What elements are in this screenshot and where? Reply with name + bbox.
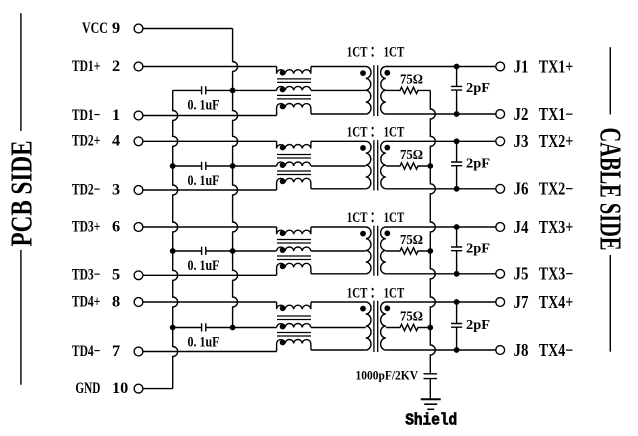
wire secondary top to J pin ch1 — [386, 66, 496, 68]
wire TD3- to common-mode choke — [143, 274, 277, 276]
CABLE SIDE divider line lower — [609, 255, 611, 352]
wire TD2- to common-mode choke — [143, 189, 277, 191]
wire center-tap net ch1 — [233, 89, 277, 91]
PCB SIDE divider line lower — [20, 250, 22, 385]
svg-text:TX3+: TX3+ — [539, 217, 574, 237]
svg-text:2pF: 2pF — [466, 241, 490, 256]
svg-text:PCB SIDE: PCB SIDE — [4, 141, 38, 247]
wire choke to transformer CT ch2 — [311, 165, 366, 167]
pin J7 terminal — [496, 298, 505, 307]
pin 8 terminal — [134, 298, 143, 307]
capacitor 2pF ch2 with junction dots — [456, 141, 458, 189]
svg-text:TD4+: TD4+ — [72, 291, 100, 310]
svg-text:6: 6 — [112, 216, 120, 235]
wire secondary top to J pin ch2 — [386, 140, 496, 142]
choke CM4 polarity dots — [280, 305, 286, 311]
VCC rail (center-tap supply bus) with crossover hops — [233, 29, 238, 328]
transformer T3 primary winding — [366, 227, 371, 274]
transformer T4 core — [374, 301, 378, 352]
svg-text:5: 5 — [112, 265, 120, 284]
transformer T3 secondary winding — [381, 227, 386, 274]
transformer T4 primary winding — [366, 302, 371, 350]
resistor R1 75 ohm — [386, 87, 431, 93]
common-mode choke CM2 windings — [277, 141, 311, 148]
svg-text:2pF: 2pF — [466, 80, 490, 95]
svg-text:1CT ： 1CT: 1CT ： 1CT — [347, 45, 405, 61]
capacitor 2pF ch4 with junction dots — [456, 302, 458, 350]
common-mode choke CM1 windings — [277, 67, 311, 74]
wire choke to transformer bottom ch4 — [311, 349, 366, 351]
svg-text:75Ω: 75Ω — [400, 232, 423, 247]
wire center-tap net ch3 — [233, 250, 277, 252]
choke CM2 polarity dots — [280, 145, 286, 151]
svg-text:0. 1uF: 0. 1uF — [188, 98, 220, 114]
transformer T1 core — [374, 65, 378, 116]
wire choke to transformer top ch4 — [311, 301, 366, 303]
choke CM3 polarity dots — [280, 230, 286, 236]
pin J5 terminal — [496, 269, 505, 278]
wire choke to transformer top ch2 — [311, 140, 366, 142]
capacitor 2pF ch3 with junction dots — [456, 227, 458, 274]
transformer T2 core — [374, 140, 378, 190]
transformer T1 secondary winding — [381, 67, 386, 115]
capacitor 2pF ch1 with junction dots — [456, 67, 458, 115]
svg-text:J8: J8 — [514, 340, 529, 360]
wire TD1+ to common-mode choke — [143, 66, 277, 68]
svg-text:0. 1uF: 0. 1uF — [188, 335, 220, 351]
svg-text:TD3−: TD3− — [72, 265, 100, 284]
capacitor C2 0.1uF (center-tap bypass) — [173, 165, 233, 167]
resistor R2 75 ohm — [386, 163, 431, 169]
svg-text:10: 10 — [112, 378, 128, 397]
transformer T2 polarity dots — [360, 145, 366, 151]
wire choke to transformer bottom ch2 — [311, 188, 366, 190]
svg-text:9: 9 — [112, 18, 120, 37]
svg-text:TD4−: TD4− — [72, 341, 100, 360]
wire VCC pin9 to VCC rail — [143, 28, 233, 30]
svg-text:TD1−: TD1− — [72, 105, 100, 124]
wire secondary bottom to J pin ch1 — [386, 113, 496, 115]
wire secondary bottom to J pin ch4 — [386, 349, 496, 351]
resistor R3 75 ohm — [386, 248, 431, 254]
wire TD4- to common-mode choke — [143, 351, 277, 353]
transformer T3 core — [374, 226, 378, 276]
svg-text:TX1+: TX1+ — [539, 56, 574, 76]
pin 10 terminal — [134, 384, 143, 393]
svg-text:J1: J1 — [514, 56, 529, 76]
capacitor C4 0.1uF (center-tap bypass) — [173, 327, 233, 329]
svg-text:8: 8 — [112, 291, 120, 310]
transformer T2 secondary winding — [381, 141, 386, 189]
svg-text:TX2+: TX2+ — [539, 131, 574, 151]
capacitor 1000pF/2KV — [424, 374, 438, 379]
svg-text:TX2−: TX2− — [539, 179, 574, 199]
CABLE SIDE divider line upper — [609, 47, 611, 114]
wire choke to transformer CT ch1 — [311, 89, 366, 91]
svg-text:J7: J7 — [514, 292, 529, 312]
svg-text:0. 1uF: 0. 1uF — [188, 173, 220, 189]
svg-text:75Ω: 75Ω — [400, 71, 423, 86]
common-mode choke CM3 windings — [277, 227, 311, 234]
resistor R4 75 ohm — [386, 324, 431, 330]
pin 1 terminal — [134, 111, 143, 120]
wire secondary bottom to J pin ch3 — [386, 273, 496, 275]
svg-text:1: 1 — [112, 105, 120, 124]
termination rail to shield capacitor — [430, 90, 435, 373]
wire secondary top to J pin ch3 — [386, 226, 496, 228]
wire TD2+ to common-mode choke — [143, 140, 277, 142]
svg-text:1CT ： 1CT: 1CT ： 1CT — [347, 210, 405, 226]
pin 3 terminal — [134, 186, 143, 195]
svg-text:TD2−: TD2− — [72, 179, 100, 198]
svg-text:J6: J6 — [514, 179, 529, 199]
svg-text:2pF: 2pF — [466, 317, 490, 332]
wire choke to transformer top ch3 — [311, 226, 366, 228]
svg-text:2pF: 2pF — [466, 156, 490, 171]
pin J3 terminal — [496, 137, 505, 146]
svg-text:Shield: Shield — [405, 410, 457, 429]
wire choke to transformer CT ch4 — [311, 327, 366, 329]
pin J2 terminal — [496, 110, 505, 119]
choke CM1 polarity dots — [280, 70, 286, 76]
svg-text:J3: J3 — [514, 131, 529, 151]
pin J4 terminal — [496, 223, 505, 232]
pin 7 terminal — [134, 347, 143, 356]
pin 4 terminal — [134, 137, 143, 146]
pin 2 terminal — [134, 62, 143, 71]
choke CM1 core — [277, 79, 311, 99]
wire choke to transformer bottom ch3 — [311, 273, 366, 275]
svg-text:7: 7 — [112, 341, 120, 360]
pin 9 terminal — [134, 24, 143, 33]
svg-text:TD1+: TD1+ — [72, 56, 100, 75]
svg-text:1CT ： 1CT: 1CT ： 1CT — [347, 286, 405, 302]
svg-text:TX4+: TX4+ — [539, 292, 574, 312]
wire center-tap net ch4 — [233, 327, 277, 329]
svg-text:TD2+: TD2+ — [72, 131, 100, 150]
choke CM3 core — [277, 240, 311, 260]
shield (chassis) symbol — [421, 398, 441, 400]
svg-text:75Ω: 75Ω — [400, 147, 423, 162]
svg-text:2: 2 — [112, 56, 120, 75]
svg-text:TX1−: TX1− — [539, 104, 574, 124]
svg-text:1CT ： 1CT: 1CT ： 1CT — [347, 124, 405, 140]
transformer T3 polarity dots — [360, 231, 366, 237]
svg-text:VCC: VCC — [82, 18, 108, 37]
svg-text:3: 3 — [112, 179, 120, 198]
transformer T4 polarity dots — [360, 306, 366, 312]
svg-text:CABLE SIDE: CABLE SIDE — [593, 128, 628, 251]
pin 5 terminal — [134, 271, 143, 280]
pin J1 terminal — [496, 62, 505, 71]
choke CM4 core — [277, 316, 311, 336]
transformer T2 primary winding — [366, 141, 371, 189]
wire choke to transformer top ch1 — [311, 66, 366, 68]
svg-text:0. 1uF: 0. 1uF — [188, 258, 220, 274]
svg-text:TX3−: TX3− — [539, 264, 574, 284]
common-mode choke CM4 windings — [277, 302, 311, 309]
wire TD1- to common-mode choke — [143, 115, 277, 117]
pin J8 terminal — [496, 346, 505, 355]
svg-text:J5: J5 — [514, 264, 529, 284]
svg-text:J4: J4 — [514, 217, 529, 237]
PCB SIDE divider line upper — [20, 13, 22, 131]
capacitor C3 0.1uF (center-tap bypass) — [173, 250, 233, 252]
capacitor C1 0.1uF (center-tap bypass) — [173, 89, 233, 91]
wire center-tap net ch2 — [233, 165, 277, 167]
choke CM2 core — [277, 155, 311, 175]
svg-text:1000pF/2KV: 1000pF/2KV — [356, 367, 419, 382]
svg-text:GND: GND — [75, 378, 100, 397]
svg-text:TD3+: TD3+ — [72, 216, 100, 235]
svg-text:TX4−: TX4− — [539, 340, 574, 360]
wire TD4+ to common-mode choke — [143, 301, 277, 303]
transformer T4 secondary winding — [381, 302, 386, 350]
pin 6 terminal — [134, 223, 143, 232]
transformer T1 polarity dots — [360, 70, 366, 76]
pin J6 terminal — [496, 184, 505, 193]
wire choke to transformer bottom ch1 — [311, 113, 366, 115]
wire secondary bottom to J pin ch2 — [386, 188, 496, 190]
wire choke to transformer CT ch3 — [311, 250, 366, 252]
wire secondary top to J pin ch4 — [386, 301, 496, 303]
svg-text:75Ω: 75Ω — [400, 309, 423, 324]
transformer T1 primary winding — [366, 67, 371, 115]
wire GND pin10 to ground rail — [143, 388, 173, 390]
svg-text:4: 4 — [112, 131, 120, 150]
GND rail (bypass bus) with crossover hops — [173, 90, 178, 388]
svg-text:J2: J2 — [514, 104, 529, 124]
wire TD3+ to common-mode choke — [143, 226, 277, 228]
